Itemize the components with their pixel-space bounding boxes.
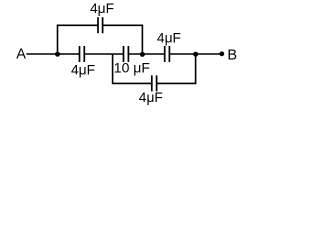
svg-text:B: B bbox=[227, 47, 237, 63]
svg-text:4μF: 4μF bbox=[71, 62, 95, 77]
svg-text:10 μF: 10 μF bbox=[114, 59, 150, 75]
svg-text:4μF: 4μF bbox=[157, 31, 181, 46]
svg-text:A: A bbox=[16, 47, 26, 63]
svg-text:4μF: 4μF bbox=[139, 90, 163, 105]
svg-text:4μF: 4μF bbox=[90, 1, 114, 16]
